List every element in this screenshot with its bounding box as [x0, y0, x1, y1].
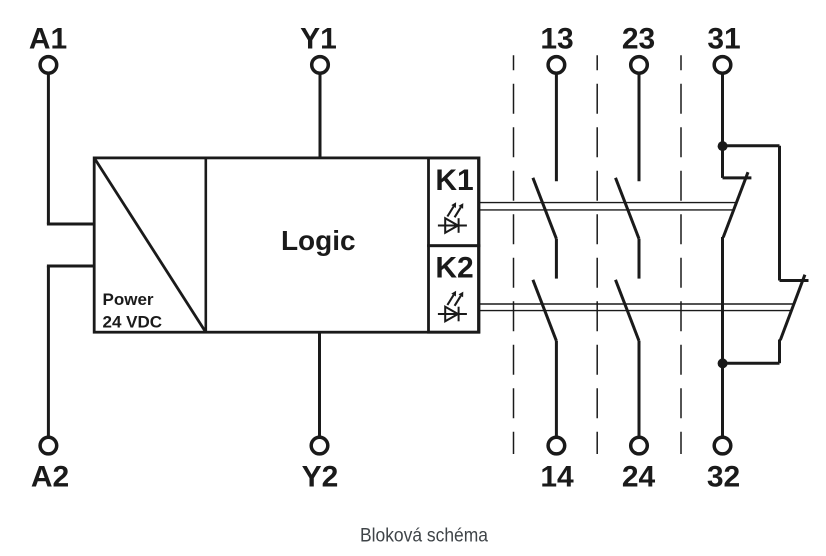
wire 31 down to junction [721, 74, 724, 151]
svg-text:Y1: Y1 [300, 23, 337, 56]
svg-text:32: 32 [707, 460, 740, 493]
contact blade 23 lower (K2) [616, 280, 640, 341]
contact blade 23 upper (K1) [616, 178, 640, 239]
wire to terminal 14 [555, 341, 558, 437]
junction dot top [718, 141, 728, 151]
wire NC2 down [778, 340, 781, 364]
dashed separator 2 [596, 55, 598, 454]
wire between blades 23 [638, 239, 641, 279]
power section diagonal [94, 158, 206, 332]
svg-text:Y2: Y2 [302, 460, 339, 493]
terminal 32 circle [714, 437, 731, 454]
terminal A1 circle [40, 57, 57, 74]
contact blade 13 upper (K1) [533, 178, 557, 239]
wire NC2 bottom horizontal [723, 362, 780, 365]
relay K2 box [429, 246, 480, 333]
wire right branch down [778, 146, 781, 281]
NC contact 2 fixed arm [780, 279, 809, 282]
wire A1 horizontal into box [47, 223, 96, 226]
svg-text:13: 13 [540, 23, 573, 56]
svg-text:31: 31 [707, 23, 740, 56]
svg-text:K2: K2 [435, 252, 473, 285]
NC contact 2 blade (K2) [780, 275, 805, 340]
main function block outline [94, 158, 478, 332]
terminal 13 circle [548, 57, 565, 74]
terminal Y1 circle [312, 57, 329, 74]
wire 31 left branch down [721, 146, 724, 178]
K2 linkage double line [479, 303, 794, 305]
terminal A2 circle [40, 437, 57, 454]
wire down left to junction [721, 237, 724, 363]
relay K1 box [429, 158, 480, 246]
wire A1 vertical [47, 74, 50, 225]
svg-text:14: 14 [540, 460, 574, 493]
wire 13 down [555, 74, 558, 182]
LED of K1 [438, 202, 467, 233]
svg-text:Logic: Logic [281, 225, 356, 256]
svg-text:24 VDC: 24 VDC [103, 313, 163, 332]
NC contact 1 fixed arm [723, 176, 752, 179]
dashed separator 3 [680, 55, 682, 454]
svg-text:24: 24 [622, 460, 656, 493]
K1 linkage double line [479, 202, 736, 204]
wire A2 horizontal into box [47, 265, 96, 268]
svg-text:A1: A1 [29, 23, 67, 56]
contact blade 13 lower (K2) [533, 280, 557, 341]
svg-text:Power: Power [103, 290, 154, 309]
svg-text:K1: K1 [435, 164, 473, 197]
svg-text:A2: A2 [31, 460, 69, 493]
LED of K2 [438, 291, 467, 322]
wire branch right top [723, 144, 780, 147]
dashed separator 1 [513, 55, 515, 454]
wire 23 down [638, 74, 641, 182]
wire A2 vertical [47, 266, 50, 437]
power section divider [205, 158, 208, 332]
terminal 31 circle [714, 57, 731, 74]
junction dot bottom [718, 358, 728, 368]
wire Y2 vertical [318, 332, 321, 437]
terminal Y2 circle [311, 437, 328, 454]
wire Y1 vertical [319, 74, 322, 159]
wire to terminal 24 [638, 341, 641, 437]
svg-text:23: 23 [622, 23, 655, 56]
terminal 23 circle [631, 57, 648, 74]
wire to terminal 32 [721, 363, 724, 437]
wire between blades 13 [555, 239, 558, 279]
terminal 24 circle [631, 437, 648, 454]
NC contact 1 blade (K1) [723, 172, 748, 237]
terminal 14 circle [548, 437, 565, 454]
svg-text:Bloková schéma: Bloková schéma [360, 525, 488, 547]
